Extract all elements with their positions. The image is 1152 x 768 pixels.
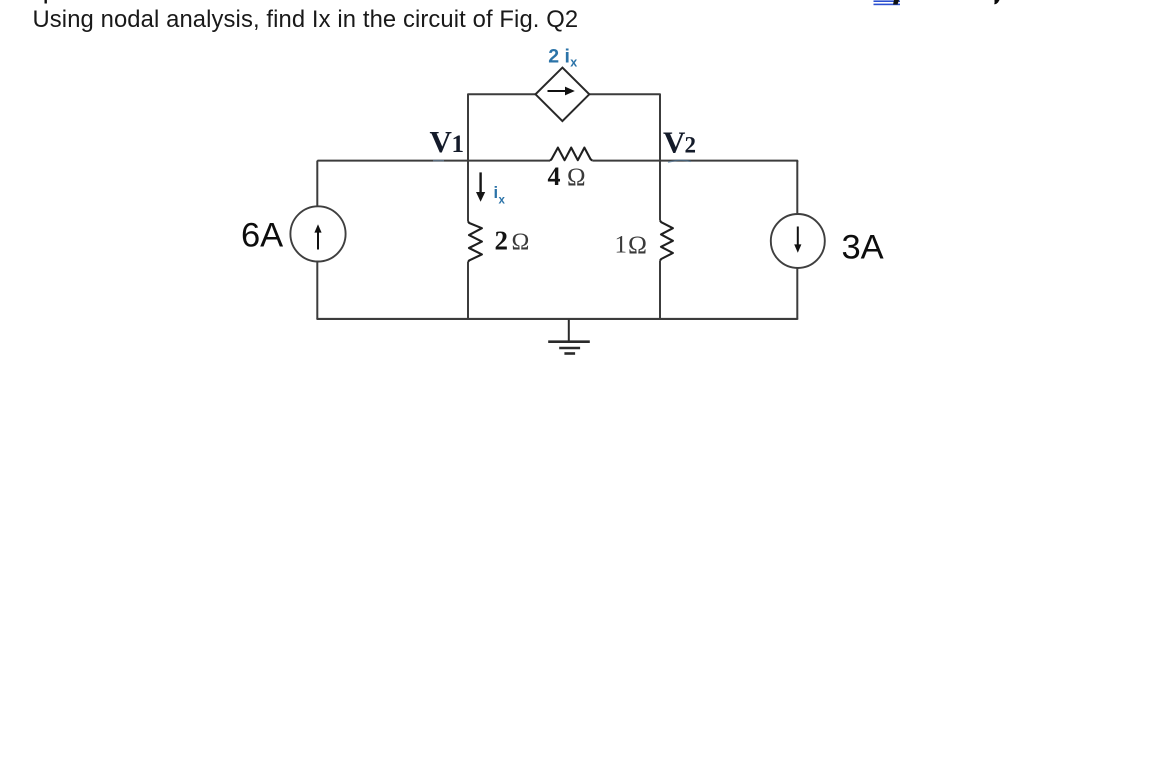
cut-off comma fragment top-right [994, 0, 999, 4]
svg-text:3A: 3A [842, 228, 884, 266]
svg-text:1: 1 [452, 131, 465, 158]
node V1 label [430, 124, 465, 159]
label 2 ohm [495, 226, 530, 256]
label 1 ohm [615, 230, 647, 259]
svg-text:Ω: Ω [512, 230, 530, 256]
svg-text:x: x [499, 195, 506, 207]
main rail left segment (V1 row) [318, 160, 550, 163]
svg-text:Ω: Ω [628, 230, 647, 259]
svg-text:4: 4 [548, 162, 561, 191]
node V2 label [663, 125, 696, 160]
wire: right branch top (rail to 3A source) [796, 161, 798, 215]
wire: 2ohm resistor down to bottom rail [467, 262, 469, 320]
cut-off blue double line top-right [874, 0, 901, 5]
ground symbol [548, 320, 590, 354]
wire: right branch bottom (3A source to bottom rail) [796, 268, 798, 320]
svg-text:V: V [663, 125, 686, 160]
wire: top loop right (dependent source across and down to node V2) [589, 94, 660, 161]
faint blue artifact under V1 [433, 160, 444, 162]
wire: V2 node down to 1ohm resistor [659, 161, 661, 221]
wire: top loop left (node V1 up and across to dependent source) [468, 94, 536, 161]
current source I1 6A (circle, arrow up) [290, 206, 345, 261]
svg-text:1: 1 [615, 232, 628, 259]
svg-text:6A: 6A [241, 217, 283, 255]
current annotation arrow ix [476, 172, 485, 201]
title text [33, 6, 579, 34]
svg-text:Ω: Ω [567, 164, 586, 191]
label 4 ohm [548, 162, 586, 191]
svg-text:i: i [494, 184, 499, 202]
resistor R3 1ohm (vertical zigzag) [660, 221, 673, 261]
svg-text:2: 2 [685, 133, 697, 158]
svg-text:V: V [430, 124, 453, 159]
resistor R2 4ohm (horizontal zigzag) [550, 148, 592, 161]
svg-text:2: 2 [495, 226, 509, 256]
svg-text:x: x [570, 55, 577, 69]
wire: left branch top (rail to 6A source) [316, 161, 318, 207]
resistor R1 2ohm (vertical zigzag) [468, 221, 482, 262]
label 2ix (blue, controlling value of dependent source) [548, 46, 577, 70]
wire: bottom rail [317, 318, 797, 320]
cut-off character fragment top-left [45, 0, 47, 4]
faint blue artifact under V2 [668, 160, 691, 162]
main rail right segment [592, 161, 797, 162]
wire: V1 node down to 2ohm resistor [467, 161, 469, 222]
current source I2 3A (circle, arrow down) [771, 214, 825, 268]
dependent current source U1 (diamond 2ix) [536, 68, 590, 122]
wire: 1ohm resistor down to bottom rail [659, 261, 661, 320]
label ix (blue) [494, 184, 506, 207]
wire: left branch bottom (6A source to bottom rail) [316, 262, 318, 320]
svg-text:2 i: 2 i [548, 46, 570, 68]
